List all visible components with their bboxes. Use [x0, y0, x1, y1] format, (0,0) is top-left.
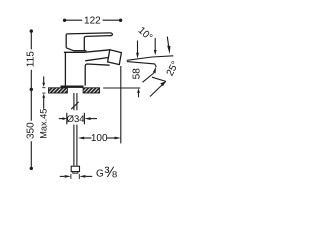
counter hatch left	[49, 88, 68, 93]
dim100 left shaft	[84, 137, 92, 139]
dim 350 line upper	[30, 89, 32, 120]
counter hatch right	[83, 88, 100, 93]
dia34 ext bar right	[83, 113, 85, 125]
max45 upper arrowhead	[42, 83, 45, 87]
dia34 right arrowhead	[84, 117, 90, 120]
G38 right arrow shaft	[86, 175, 93, 177]
dia34 right arrow shaft	[90, 118, 97, 120]
max45 lower arrowhead	[42, 94, 45, 98]
faucet lever rounded tip	[110, 33, 113, 36]
G38 nut outline	[71, 166, 79, 171]
base plate escutcheon	[61, 86, 84, 88]
angle line A	[127, 56, 174, 61]
svg-text:115: 115	[26, 51, 37, 67]
dim100 left arrowhead	[78, 137, 84, 140]
max45 lower arrow shaft	[43, 97, 45, 108]
arrow2 shaft	[154, 38, 156, 51]
25deg leader shaft	[150, 81, 166, 96]
svg-text:G: G	[96, 169, 104, 180]
faucet lever bottom edge	[86, 35, 109, 38]
dim100 right shaft	[107, 137, 116, 139]
G38 left arrow shaft	[60, 175, 65, 177]
svg-text:⅜: ⅜	[104, 164, 117, 181]
dim100 right arrowhead	[115, 137, 121, 140]
G38 ext bar right	[78, 174, 80, 179]
max45 tick top	[42, 87, 45, 89]
svg-text:122: 122	[84, 16, 101, 27]
25deg arrowhead on B	[153, 66, 156, 73]
arrow2 head	[154, 50, 157, 55]
pipe upper left line	[73, 93, 75, 110]
25deg leader line D	[152, 77, 166, 81]
dim 115 line lower	[30, 70, 32, 90]
body left edge	[64, 52, 66, 85]
deck level extension line	[103, 87, 140, 89]
spout bottom front edge	[85, 58, 108, 61]
dim 115 dot top	[30, 29, 33, 32]
handle base bottom line	[74, 50, 87, 52]
shared dot 115/350	[30, 88, 33, 91]
25deg small arrow shaft near B	[143, 73, 154, 82]
pipe break slash	[71, 102, 78, 109]
max45 upper arrow shaft	[43, 76, 45, 83]
aerator extension line	[120, 66, 122, 143]
dim 122 line left	[65, 19, 83, 21]
svg-text:58: 58	[131, 68, 142, 80]
G38 ext bar left	[70, 174, 72, 179]
body top / spout top edge	[64, 50, 110, 53]
svg-text:Ø34: Ø34	[67, 114, 85, 125]
svg-text:350: 350	[26, 122, 37, 139]
max45 tick bottom	[42, 92, 45, 94]
svg-text:100: 100	[91, 133, 108, 144]
body right edge with arc to under-spout line	[85, 64, 109, 86]
pipe lower left line	[73, 125, 75, 166]
G38 right arrowhead	[79, 175, 85, 178]
G38 stub below nut	[73, 172, 78, 174]
handle front inner line	[84, 36, 86, 50]
arrow3 shaft	[167, 37, 168, 47]
dim 122 dot left	[63, 19, 66, 22]
58 bottom arrowhead	[137, 88, 140, 93]
dim 350 dot bottom	[30, 167, 33, 170]
arrow3 head	[167, 46, 170, 55]
handle base chamfer	[66, 48, 73, 51]
dim 122 line right	[103, 19, 121, 21]
dim 122 dot right	[119, 19, 122, 22]
dim 115 line upper	[30, 31, 32, 49]
svg-text:Max.45: Max.45	[38, 109, 48, 139]
dim 350 line lower	[30, 141, 32, 168]
58 top arrow shaft	[137, 41, 139, 54]
pipe upper right line	[76, 93, 78, 110]
dia34 left arrow shaft	[59, 118, 63, 120]
aerator quad	[108, 50, 122, 65]
25deg leader arrowhead	[160, 81, 166, 86]
dia34 ext bar left	[66, 113, 68, 125]
dia34 left arrowhead	[63, 117, 67, 120]
58 bottom arrow shaft	[138, 92, 140, 97]
pipe lower right line	[76, 125, 78, 166]
G38 left arrowhead	[65, 175, 71, 178]
faucet lever top edge	[67, 33, 109, 34]
handle base left edge	[66, 34, 67, 48]
58 top arrowhead	[136, 53, 139, 59]
angle line B	[127, 62, 156, 68]
